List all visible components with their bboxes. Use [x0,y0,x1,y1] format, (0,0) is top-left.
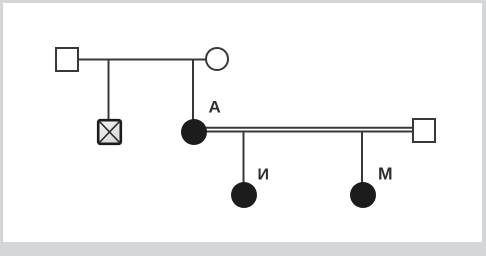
filled circle II-2 female A [181,119,207,145]
filled circle III-1 female И [231,182,257,208]
drop wire to deceased son [108,60,110,121]
double consanguinity marriage line [200,128,413,132]
square II-3 husband [413,119,435,142]
circle I-2 mother [206,48,228,70]
square I-1 father [56,48,78,71]
svg-text:М: М [378,164,393,184]
filled circle III-2 female М [350,182,376,208]
marriage line generation I [78,59,206,61]
svg-text:И: И [258,167,270,184]
drop wire to daughter M (М) [361,131,363,183]
crossed square II-1 deceased male [98,120,121,144]
drop wire to daughter A [192,60,194,122]
svg-text:А: А [209,98,221,117]
drop wire to daughter I (И) [243,131,245,183]
